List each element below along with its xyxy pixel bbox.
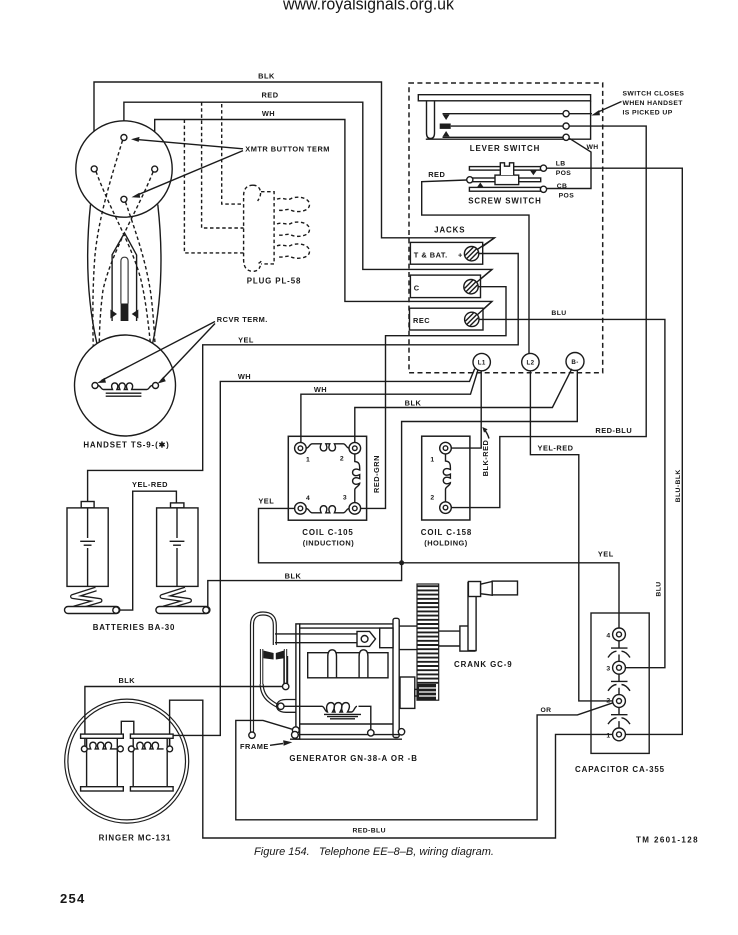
generator brush lead terminal (BLK) [283,683,289,689]
wire T&BAT jack to YEL to battery1 plus [88,254,519,502]
jack T&BAT [410,242,482,264]
svg-text:YEL: YEL [598,550,614,559]
svg-text:FRAME: FRAME [240,742,269,751]
cord conductor (dashed) to plug middle [202,102,244,228]
svg-text:JACKS: JACKS [434,226,465,235]
terminal B- [566,353,584,371]
svg-text:3: 3 [606,666,610,673]
gear wheel [399,584,439,700]
svg-text:BLU: BLU [656,581,663,596]
ringer right core [133,738,167,786]
handset cord (dashed, xmtr top to receiver left) [93,141,123,379]
svg-text:CRANK GC-9: CRANK GC-9 [454,660,513,669]
generator right bottom terminal [398,729,404,735]
svg-text:WH: WH [586,144,598,151]
receiver coil [98,383,152,390]
svg-text:BLK-RED: BLK-RED [481,439,490,476]
capacitor CA-355 [575,613,665,774]
svg-text:1: 1 [306,457,310,464]
svg-text:LB: LB [556,160,566,167]
svg-text:RED: RED [261,91,278,100]
terminal L2 [522,353,539,370]
wire lever contact3 to CB [547,138,599,188]
wire C jack to RED-GRN to coil C-105 term3 [361,287,507,509]
lever contact circles [563,111,569,117]
capacitor terminal 2 [613,695,626,708]
jack REC [410,308,484,330]
xmtr terminal right [152,166,158,172]
ringer left coil winding [87,742,117,749]
coil C-105 terminal 2 [349,442,361,454]
svg-text:RED-GRN: RED-GRN [372,455,381,493]
svg-text:1: 1 [606,732,610,739]
lever switch [418,95,592,154]
generator body floor and bottom [300,723,393,725]
generator brush hairpin loop [252,614,275,734]
generator brushes (filled) [263,651,273,660]
plug prong 2 [277,222,310,236]
svg-text:WH: WH [314,385,327,394]
plug prong 1 [277,197,310,211]
svg-text:T & BAT.: T & BAT. [414,251,448,260]
svg-text:RED: RED [428,170,445,179]
svg-text:YEL-RED: YEL-RED [132,480,168,489]
generator brush holder bars [260,649,263,684]
svg-text:BATTERIES BA-30: BATTERIES BA-30 [93,623,176,632]
coil C-105 secondary winding (vertical) [353,454,360,503]
wire L1 to WH (long, down left side) joining ringer node [170,369,475,736]
wire BLK (top, battery jack lead) [94,71,495,253]
ringer right coil top bar [130,734,173,738]
handset cord (dashed, xmtr right to receiver left side) [99,172,153,377]
dashed enclosure box [409,83,603,373]
rcvr terminal right [153,383,159,389]
contact marker triangle up [443,131,450,137]
svg-text:+: + [458,251,463,260]
capacitor terminal 4 [613,628,626,641]
jacks [410,226,495,330]
wire capacitor term1 to RED-BLU to ringer [170,700,613,838]
generator field terminal [359,706,371,729]
cord conductor (dashed) to plug bottom [184,120,244,253]
battery 2 contact roll [156,607,210,614]
plug prong 3 [277,244,310,258]
wire B- down to battery BLK junction [208,370,578,607]
battery 1 spring [73,589,101,608]
svg-text:2: 2 [430,495,434,502]
wire lever contact2 to RED-BLU to coil C-158 term2 [451,126,646,508]
coil C-158 winding (vertical) [443,454,450,502]
wire REC jack to BLU to capacitor term3 [479,310,665,668]
svg-text:254: 254 [60,891,86,906]
coil C-105 terminal 1 [295,442,307,454]
note SWITCH CLOSES WHEN HANDSET IS PICKED UP [591,90,684,116]
svg-text:L1: L1 [478,360,486,367]
svg-text:C: C [414,284,420,293]
contact marker rectangle [440,124,451,129]
xmtr terminal top [121,135,127,141]
wire LB to BLU-BLK to capacitor term1 [547,168,683,734]
coil C-105 tertiary winding [306,506,349,513]
cord conductor (dashed) to plug top [222,104,243,204]
wire WH (top, REC jack lead) [155,109,492,318]
svg-text:REC: REC [413,316,430,325]
wire RED (top, C jack lead) [124,91,492,286]
generator body top rails [300,623,393,625]
generator shaft bearing (diamond) [357,631,376,646]
svg-text:3: 3 [343,495,347,502]
svg-text:XMTR BUTTON TERM: XMTR BUTTON TERM [245,145,330,154]
svg-text:BLU-BLK: BLU-BLK [675,469,682,502]
svg-text:(HOLDING): (HOLDING) [424,539,468,548]
marker triangle up [477,183,484,188]
svg-text:SWITCH CLOSES: SWITCH CLOSES [623,90,685,97]
battery 2 spring [162,589,190,608]
rcvr terminal left [92,383,98,389]
svg-text:(INDUCTION): (INDUCTION) [303,539,355,548]
coil C-158 terminal 2 [440,502,452,514]
svg-text:LEVER SWITCH: LEVER SWITCH [470,144,540,153]
wire L2 to YEL-RED to capacitor term2 [530,371,612,701]
svg-text:WH: WH [262,109,275,118]
wire battery1 to battery2 YEL-RED series link [119,480,176,610]
coil C-158 terminal 1 [440,442,452,454]
svg-text:POS: POS [559,193,575,200]
svg-text:BLU: BLU [551,310,566,317]
coil C-105 terminal 3 [349,503,361,515]
capacitor element symbols [608,641,630,728]
svg-text:4: 4 [306,495,310,502]
svg-text:POS: POS [556,170,572,177]
ringer coil link bridge [121,721,134,734]
wire frame to OR to capacitor term2 [236,703,613,820]
screw head [500,163,513,175]
svg-text:GENERATOR GN-38-A OR -B: GENERATOR GN-38-A OR -B [289,754,417,763]
svg-text:RED-BLU: RED-BLU [353,827,386,834]
coil C-105 primary winding [306,444,349,451]
xmtr terminal left [91,166,97,172]
jack C [410,275,480,298]
xmtr terminal bottom [121,196,127,202]
svg-text:YEL: YEL [258,496,274,505]
ringer right coil winding [134,742,163,749]
svg-text:B-: B- [571,359,578,366]
contact marker triangle down [443,115,450,121]
svg-text:RCVR TERM.: RCVR TERM. [217,315,268,324]
coil C-105 terminal 4 [295,503,307,515]
generator field coil [284,703,357,712]
svg-text:2: 2 [606,697,610,704]
crank GC-9 [439,581,518,669]
generator field magnet block [308,653,388,678]
handset cord (dashed, xmtr bottom to receiver right side) [126,202,157,377]
svg-text:L2: L2 [526,360,534,367]
battery 2 (BA-30) [156,503,210,614]
generator left end plate [296,624,300,739]
handset body outline [88,205,161,345]
svg-text:RED-BLU: RED-BLU [595,426,632,435]
generator right end plate [393,618,399,737]
battery 1 contact roll [65,607,120,614]
svg-text:YEL: YEL [238,335,254,344]
svg-text:SCREW SWITCH: SCREW SWITCH [468,197,541,206]
svg-text:OR: OR [541,707,552,714]
wire L1 to BLK-RED to coil C-158 term1 [451,371,490,477]
svg-text:WH: WH [238,372,251,381]
coil C-158 (holding) [421,436,472,548]
svg-text:4: 4 [606,632,610,639]
svg-text:www.royalsignals.org.uk: www.royalsignals.org.uk [282,0,455,13]
label XMTR BUTTON TERM with arrows [131,137,330,198]
svg-text:WHEN HANDSET: WHEN HANDSET [623,100,684,107]
svg-text:COIL C-158: COIL C-158 [421,528,472,537]
battery 1 (BA-30) [65,502,120,614]
svg-text:PLUG PL-58: PLUG PL-58 [247,277,302,286]
generator brush terminal circle [277,700,296,713]
ringer MC-131 [65,699,189,842]
label RCVR TERM. with arrows [97,315,268,384]
ringer left coil top bar [81,734,124,738]
svg-text:IS PICKED UP: IS PICKED UP [623,110,673,117]
marker triangle down [530,170,537,175]
svg-text:HANDSET TS-9-(✱): HANDSET TS-9-(✱) [83,440,169,449]
screw switch [428,160,574,205]
svg-text:RINGER MC-131: RINGER MC-131 [99,833,172,842]
generator frame terminal [292,727,299,734]
generator shaft coupling [380,628,393,648]
svg-text:BLK: BLK [285,571,302,580]
generator armature shaft [275,633,357,635]
handset transmitter circle [76,121,172,217]
svg-text:TM 2601-128: TM 2601-128 [636,836,699,845]
svg-text:2: 2 [340,456,344,463]
wire generator brush to BLK to ringer [85,676,283,746]
capacitor terminal 1 [613,728,626,741]
plug PL-58 body (dashed capsule) [244,185,310,285]
wire B- to BLK to coil C-105 term2 [355,369,572,444]
wire L1 to WH to coil C-105 term1 [301,371,478,443]
svg-text:BLK: BLK [405,398,422,407]
terminal L1 [473,353,490,370]
handset receiver circle [75,335,176,436]
handset cord (dashed, xmtr left to receiver right) [96,172,153,378]
ringer left core [87,738,118,786]
wire RED screw-switch to L2 [422,180,529,353]
svg-text:CAPACITOR CA-355: CAPACITOR CA-355 [575,765,665,774]
capacitor terminal 3 [613,661,626,674]
svg-text:YEL-RED: YEL-RED [538,444,574,453]
generator GN-38 [240,614,418,764]
generator bearing block right [400,677,415,708]
microphone element [110,233,138,321]
svg-text:BLK: BLK [258,71,275,80]
generator brush arm to terminal [262,684,279,706]
svg-text:BLK: BLK [118,676,135,685]
svg-text:Figure 154. Telephone EE–8–B: Figure 154. Telephone EE–8–B, wiring dia… [254,846,494,858]
svg-text:1: 1 [430,457,434,464]
wire coil C-105 term4 to YEL to capacitor term4 [258,496,619,628]
svg-text:COIL C-105: COIL C-105 [302,528,353,537]
coil C-105 (induction) [288,436,366,547]
